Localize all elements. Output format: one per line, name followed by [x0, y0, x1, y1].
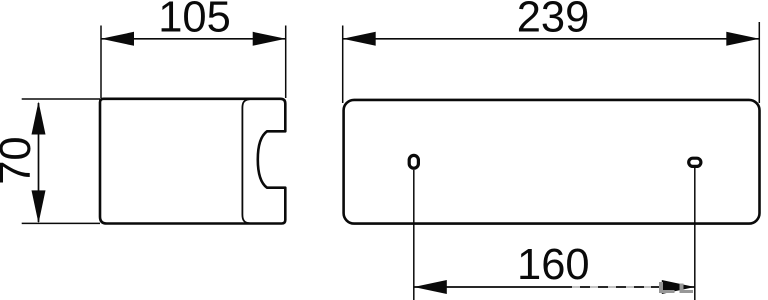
svg-text:160: 160	[517, 241, 590, 289]
mounting hole right (horizontal slot)	[689, 158, 701, 166]
arrowhead 239 left	[343, 32, 376, 46]
dimension line 160	[414, 286, 695, 288]
mounting hole left (vertical slot)	[409, 155, 418, 168]
dimension line 105	[101, 38, 286, 40]
extension line 105 left	[100, 26, 102, 99]
svg-text:105: 105	[158, 0, 231, 42]
extension line 70 bottom	[22, 222, 100, 224]
arrowhead 105 right	[253, 32, 286, 46]
front view outline	[344, 100, 760, 224]
arrowhead 70 top	[32, 102, 46, 135]
arrowhead 239 right	[726, 32, 759, 46]
svg-text:239: 239	[517, 0, 590, 42]
side view outline	[100, 99, 285, 224]
dimension line 239	[343, 38, 760, 40]
svg-text:70: 70	[0, 136, 40, 184]
arrowhead 160 left	[414, 280, 447, 294]
extension line 239 left	[342, 26, 344, 104]
watermark dashes over 160 line	[572, 284, 651, 290]
extension line 239 right	[758, 22, 760, 103]
arrowhead 105 left	[101, 32, 134, 46]
side view inner profile line	[242, 99, 249, 223]
extension line 105 right	[285, 26, 287, 99]
arrowhead 160 right	[662, 280, 695, 294]
extension line 70 top	[22, 98, 100, 100]
extension line 160 left	[413, 170, 415, 300]
extension line 160 right	[694, 167, 696, 300]
arrowhead 70 bottom	[32, 190, 46, 223]
watermark gray letter fragments on arrow	[659, 282, 693, 293]
dimension line 70	[38, 103, 40, 222]
